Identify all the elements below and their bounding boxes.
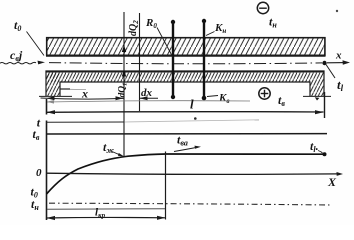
left wall bottom line: [39, 95, 72, 97]
svg-text:R0: R0: [145, 17, 157, 30]
top plate thick bottom edge: [46, 55, 326, 57]
node: channel end dot: [322, 61, 326, 65]
t_n dotted level line: [49, 203, 330, 205]
dQ slice line left (x marker), runs into graph: [123, 12, 125, 157]
svg-text:lкр: lкр: [95, 207, 106, 220]
bottom structure outline: [46, 71, 324, 96]
top plate (hatched): [46, 37, 326, 56]
zero axis (X): [47, 173, 339, 174]
svg-text:Kн: Kн: [214, 22, 226, 35]
svg-text:tв: tв: [278, 93, 285, 108]
x dimension line: [41, 98, 124, 99]
ghost line above l_kr dim: [47, 208, 165, 210]
x axis arrow (channel exit): [327, 62, 347, 64]
l dimension line: [47, 111, 324, 114]
plus sign (circle) bottom: [259, 88, 270, 99]
right wall bottom line: [303, 95, 331, 97]
bottom plate right wall: [310, 82, 324, 96]
small arrow at right wall bottom: [315, 97, 320, 100]
svg-text:dQ1: dQ1: [118, 83, 129, 98]
scan speck (top right): [336, 10, 338, 12]
bottom plate left wall: [46, 71, 60, 96]
svg-text:cвj: cвj: [10, 48, 23, 63]
svg-text:t0: t0: [14, 18, 21, 33]
inner skin ghost line: [60, 88, 70, 90]
temperature curve: [47, 154, 325, 194]
svg-text:x: x: [335, 50, 342, 62]
minus sign (circle) top: [257, 2, 268, 13]
svg-text:X: X: [327, 175, 337, 189]
t_v level line: [47, 133, 328, 135]
l_kr dimension line: [47, 216, 166, 219]
svg-text:0: 0: [36, 167, 42, 179]
svg-text:l: l: [190, 97, 194, 112]
graph top border line: [47, 121, 125, 123]
extension line right: [324, 92, 326, 118]
svg-text:dx: dx: [141, 87, 153, 99]
svg-text:Kв: Kв: [218, 92, 229, 105]
channel centerline (dash-dot): [49, 63, 322, 64]
dQ1 up arrow: [122, 70, 126, 77]
svg-text:tва: tва: [177, 133, 188, 148]
dQ2 up arrow: [122, 45, 126, 52]
svg-text:tн: tн: [269, 15, 277, 30]
bottom plate band (hatched): [46, 71, 324, 82]
dQ slice line right: [139, 13, 141, 111]
bottom plate thick top edge: [46, 71, 324, 73]
contact line (right): [203, 21, 205, 97]
graph vertical axis / left extension line: [46, 99, 48, 115]
wavy arrow: [0, 62, 36, 64]
svg-text:tж: tж: [103, 140, 114, 155]
dx dimension: [140, 97, 159, 99]
l_kr right boundary vertical: [165, 152, 167, 220]
svg-text:tl.: tl.: [310, 139, 319, 154]
svg-text:tl: tl: [337, 77, 344, 93]
svg-text:t: t: [37, 116, 41, 130]
contact line K_n / K_v (left): [172, 22, 174, 97]
small dot above top line: [194, 117, 197, 120]
svg-text:dQ2: dQ2: [128, 20, 140, 36]
curve end dot: [323, 152, 327, 156]
ghost dim line (scan double): [47, 101, 250, 102]
svg-text:x: x: [81, 87, 88, 101]
